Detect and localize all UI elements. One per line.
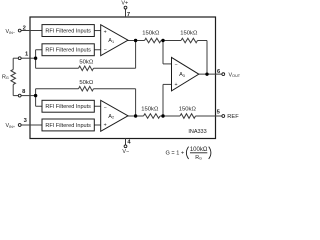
svg-text:REF: REF (227, 114, 239, 120)
svg-text:2: 2 (23, 25, 26, 31)
svg-text:−: − (104, 105, 107, 111)
svg-text:VOUT: VOUT (229, 72, 241, 78)
svg-text:VIN+: VIN+ (6, 123, 16, 129)
svg-text:A3: A3 (179, 72, 185, 78)
svg-text:150kΩ: 150kΩ (179, 106, 197, 112)
svg-text:150kΩ: 150kΩ (180, 30, 198, 36)
svg-text:RFI Filtered Inputs: RFI Filtered Inputs (45, 28, 91, 34)
svg-text:150kΩ: 150kΩ (142, 30, 160, 36)
svg-text:100kΩ: 100kΩ (190, 147, 208, 153)
svg-text:RG: RG (195, 155, 202, 161)
svg-text:RFI Filtered Inputs: RFI Filtered Inputs (45, 123, 91, 129)
svg-text:50kΩ: 50kΩ (79, 80, 93, 86)
svg-text:G = 1 +: G = 1 + (166, 150, 185, 156)
svg-text:V−: V− (122, 149, 129, 155)
svg-text:A2: A2 (108, 114, 114, 120)
svg-text:+: + (174, 82, 177, 88)
svg-text:RG: RG (2, 74, 9, 80)
svg-text:−: − (104, 47, 107, 53)
svg-text:V+: V+ (121, 1, 128, 7)
svg-text:INA333: INA333 (188, 129, 206, 135)
svg-text:VIN−: VIN− (6, 29, 16, 35)
svg-text:RFI Filtered Inputs: RFI Filtered Inputs (45, 48, 91, 54)
svg-text:A1: A1 (108, 38, 114, 44)
svg-text:150kΩ: 150kΩ (141, 106, 159, 112)
svg-text:RFI Filtered Inputs: RFI Filtered Inputs (45, 104, 91, 110)
svg-text:−: − (174, 62, 177, 68)
svg-text:+: + (104, 123, 107, 129)
svg-text:+: + (104, 30, 107, 36)
svg-text:7: 7 (127, 12, 130, 18)
svg-text:50kΩ: 50kΩ (79, 60, 93, 66)
